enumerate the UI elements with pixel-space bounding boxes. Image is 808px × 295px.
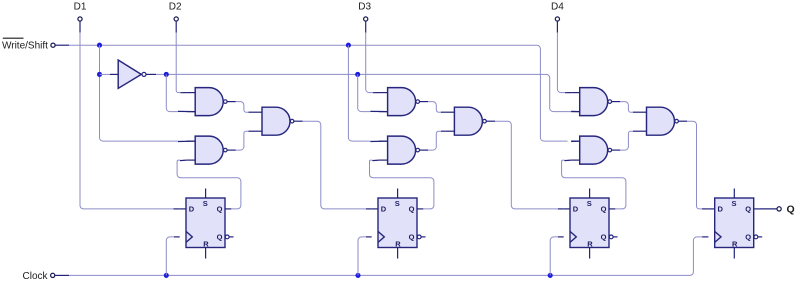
svg-text:Q: Q xyxy=(601,233,607,242)
wire U9 out to U10 bottom input xyxy=(620,131,633,150)
svg-text:D2: D2 xyxy=(169,2,182,13)
svg-text:R: R xyxy=(732,239,738,248)
wire U7 out to FF3 D input xyxy=(495,121,558,209)
input pin Write/Shift xyxy=(51,43,55,47)
svg-text:S: S xyxy=(203,199,208,208)
wire D3 riser to U5 xyxy=(366,33,373,93)
svg-text:S: S xyxy=(731,199,736,208)
wire inverted riser cell B xyxy=(358,74,371,111)
svg-text:D1: D1 xyxy=(74,2,87,13)
wire clock riser FF1 xyxy=(166,237,174,276)
wire D4 riser to U8 xyxy=(557,33,565,93)
node clock tap FF1 xyxy=(164,273,169,278)
input pin D4 xyxy=(555,17,559,21)
nand U6 (cell B shift gate) xyxy=(379,136,428,164)
wire U8 out to U10 top input xyxy=(620,102,633,113)
svg-text:R: R xyxy=(587,239,593,248)
svg-text:Q: Q xyxy=(787,204,795,216)
wire Q1 feedback loop to U3 xyxy=(177,160,241,209)
wire NOT input xyxy=(100,73,110,75)
flip-flop U13 (FF3) xyxy=(564,189,618,259)
nand U9 (cell C shift gate) xyxy=(571,136,620,164)
svg-text:S: S xyxy=(587,199,592,208)
wire U6 out to U7 bottom input xyxy=(428,131,441,150)
node inverted tap cell B (x358) xyxy=(355,72,360,77)
svg-text:D3: D3 xyxy=(358,2,371,13)
node clock tap FF2 xyxy=(355,273,360,278)
svg-text:Q: Q xyxy=(601,205,607,214)
svg-text:D: D xyxy=(573,205,579,214)
node NOT input junction xyxy=(97,72,102,77)
flip-flop U14 (FF4) xyxy=(708,189,762,259)
svg-text:D: D xyxy=(189,205,195,214)
svg-text:Q: Q xyxy=(217,205,223,214)
svg-text:Q: Q xyxy=(409,205,415,214)
wire clock riser FF2 xyxy=(358,237,366,276)
wire inverted riser cell A xyxy=(166,74,178,111)
nand U2 (cell A write gate) xyxy=(187,88,236,116)
wire Write/Shift riser cell A xyxy=(100,45,179,141)
nand U8 (cell C write gate) xyxy=(571,88,620,116)
nand U3 (cell A shift gate) xyxy=(187,136,236,164)
wire Write/Shift bus y45 xyxy=(69,45,568,141)
nand U4 (cell A combiner) xyxy=(254,107,303,135)
svg-text:Clock: Clock xyxy=(23,271,49,282)
input pin Clock xyxy=(51,273,55,277)
node clock tap FF3 xyxy=(548,273,553,278)
input pin D2 xyxy=(174,17,178,21)
svg-text:D: D xyxy=(717,205,723,214)
nand U10 (cell C combiner) xyxy=(638,107,687,135)
wire Write/Shift riser cell B xyxy=(348,45,370,141)
node inverted tap cell A (x166) xyxy=(164,72,169,77)
wire U4 out to FF2 D input xyxy=(303,121,366,209)
wire U2 out to U4 top input xyxy=(236,102,249,113)
svg-text:S: S xyxy=(395,199,400,208)
wire U10 out to FF4 D input xyxy=(687,121,702,209)
wire D1 to FF1 D input xyxy=(80,33,174,209)
input pin D3 xyxy=(364,17,368,21)
output pin Q xyxy=(777,207,781,211)
wire U5 out to U7 top input xyxy=(428,102,441,113)
nand U7 (cell B combiner) xyxy=(446,107,495,135)
svg-text:D: D xyxy=(381,205,387,214)
flip-flop U12 (FF2) xyxy=(372,189,426,259)
wire D2 riser to U2 xyxy=(176,33,180,93)
svg-text:R: R xyxy=(203,239,209,248)
svg-text:D4: D4 xyxy=(551,2,564,13)
inverter U1 xyxy=(118,60,141,88)
wire clock bus xyxy=(69,237,702,276)
svg-text:Write/Shift: Write/Shift xyxy=(2,41,48,52)
flip-flop U11 (FF1) xyxy=(180,189,234,259)
svg-text:Q: Q xyxy=(409,233,415,242)
input pin D1 xyxy=(78,17,82,21)
node Write/Shift tap cell B (x348) xyxy=(346,43,351,48)
wire Q3 feedback loop to U9 xyxy=(562,160,626,209)
node Write/Shift tap cell A (x99) xyxy=(97,43,102,48)
wire FF4 Q to output pin xyxy=(760,208,777,210)
svg-text:R: R xyxy=(395,239,401,248)
svg-text:Q: Q xyxy=(745,233,751,242)
wire inverted bus y74 xyxy=(156,73,166,75)
wire Q2 feedback loop to U6 xyxy=(370,160,434,209)
svg-text:Q: Q xyxy=(217,233,223,242)
wire U3 out to U4 bottom input xyxy=(236,131,249,150)
svg-text:Q: Q xyxy=(745,205,751,214)
wire clock riser FF3 xyxy=(550,237,558,276)
nand U5 (cell B write gate) xyxy=(379,88,428,116)
